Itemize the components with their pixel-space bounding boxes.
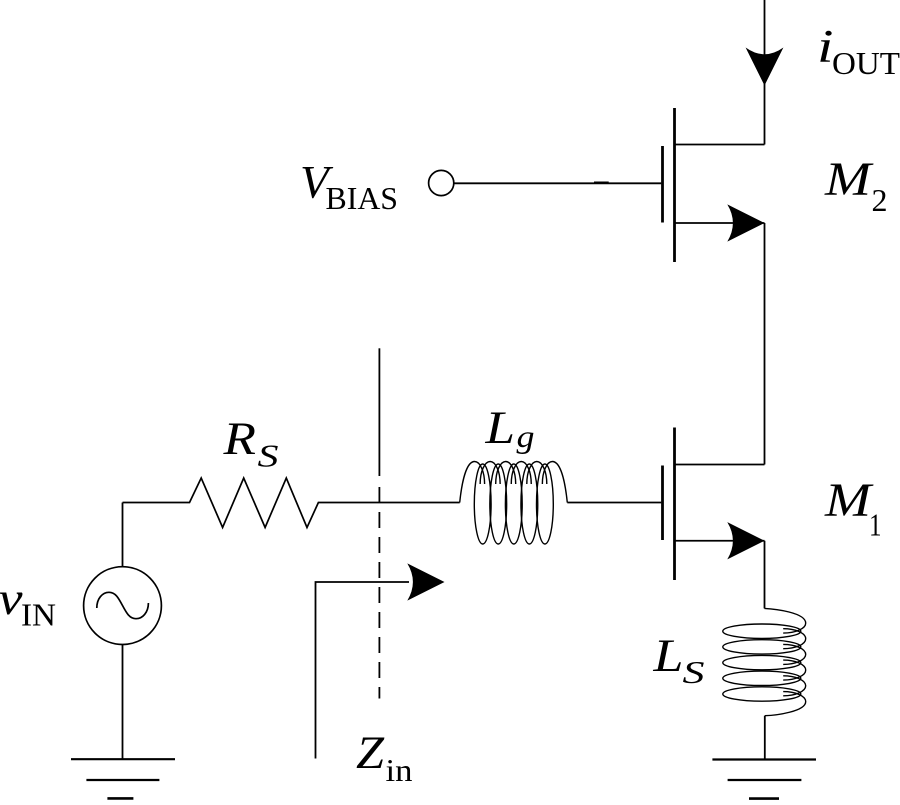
wire M2 source to M1 drain [764, 223, 766, 465]
svg-text:in: in [386, 752, 413, 788]
M2 source arrow [727, 204, 764, 241]
ground right [712, 760, 816, 799]
label RS [222, 413, 278, 474]
wire vIN bottom [122, 645, 124, 760]
M1 source arrow [727, 522, 764, 559]
transistor M1 [663, 428, 765, 581]
svg-text:OUT: OUT [832, 45, 900, 81]
label Lg [484, 402, 534, 454]
label VBIAS [300, 157, 398, 217]
source vIN [84, 567, 162, 645]
M2 source lead [675, 222, 765, 224]
terminal circle VBIAS [429, 170, 454, 195]
resistor RS with node wire [123, 478, 460, 528]
svg-text:S: S [683, 654, 705, 690]
wire Lg to M1 gate [567, 502, 661, 504]
svg-text:L: L [652, 630, 683, 682]
M2 gate bar [661, 146, 664, 223]
svg-text:g: g [517, 418, 535, 454]
dashed reference line Zin [378, 348, 380, 698]
label iOUT [817, 21, 900, 81]
wire M2 gate lead [454, 182, 662, 184]
Zin arrow [407, 563, 444, 600]
M1 source lead [675, 540, 765, 542]
svg-text:2: 2 [872, 182, 888, 218]
svg-text:M: M [824, 153, 875, 206]
ground left [71, 759, 175, 798]
wire vIN top [122, 503, 124, 567]
svg-text:L: L [484, 402, 515, 454]
M2 drain lead [675, 144, 765, 146]
label vIN [0, 573, 56, 633]
M1 gate bar [661, 466, 664, 541]
label Zin [356, 727, 413, 788]
svg-text:M: M [824, 474, 875, 527]
wire overlap jog on gate lead [594, 181, 609, 183]
transistor M2 [663, 108, 765, 262]
svg-text:BIAS: BIAS [326, 180, 399, 216]
label LS [652, 630, 704, 690]
wire M1 source to Ls [764, 541, 766, 609]
label M2 [824, 153, 888, 218]
label M1 [824, 474, 882, 543]
M2 channel bar [673, 108, 676, 262]
current arrow iOUT [746, 48, 784, 86]
svg-text:R: R [222, 413, 256, 465]
wire Zin arrow lead [316, 582, 410, 759]
wire output drain (top vertical) [764, 0, 766, 145]
svg-text:Z: Z [356, 727, 385, 779]
inductor Ls [723, 608, 806, 715]
sine wave [97, 592, 149, 618]
svg-text:S: S [258, 438, 279, 474]
svg-text:1: 1 [869, 507, 882, 543]
M1 channel bar [673, 428, 676, 581]
svg-text:IN: IN [21, 597, 56, 633]
svg-text:v: v [0, 573, 23, 625]
inductor Lg [460, 462, 568, 545]
wire Ls to ground [764, 716, 766, 760]
M1 drain lead [675, 464, 765, 466]
